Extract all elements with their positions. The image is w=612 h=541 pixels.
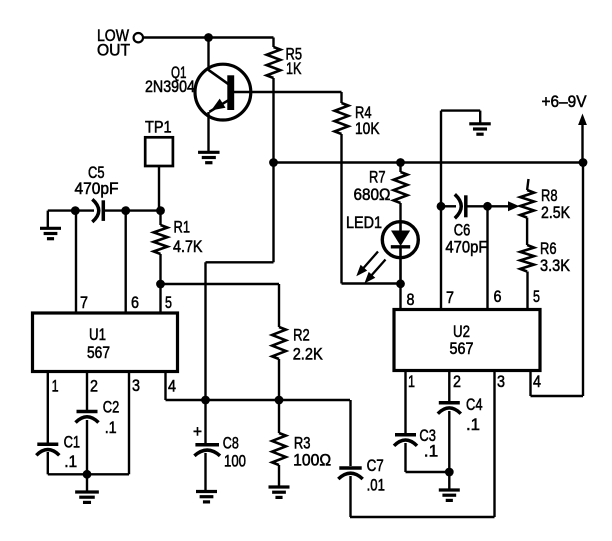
capacitor C5 <box>92 199 103 222</box>
ground <box>439 490 460 500</box>
svg-text:TP1: TP1 <box>145 118 172 137</box>
svg-text:7: 7 <box>446 288 454 307</box>
svg-text:R1: R1 <box>174 218 191 237</box>
node <box>156 206 165 215</box>
svg-text:C4: C4 <box>466 395 483 414</box>
pin 4 label <box>168 377 176 396</box>
wire <box>466 205 488 207</box>
node <box>437 202 446 211</box>
node <box>396 158 405 167</box>
svg-text:C1: C1 <box>64 432 81 451</box>
node <box>483 202 492 211</box>
svg-text:2N3904: 2N3904 <box>145 77 195 96</box>
svg-text:100Ω: 100Ω <box>293 451 331 470</box>
ground <box>198 152 220 162</box>
svg-text:C8: C8 <box>223 434 239 453</box>
wire <box>164 372 166 401</box>
wire <box>166 399 351 401</box>
node <box>201 396 210 405</box>
svg-text:4.7K: 4.7K <box>173 237 203 256</box>
ground <box>269 487 290 497</box>
wire <box>486 206 488 311</box>
wire <box>48 473 129 475</box>
node <box>71 206 80 215</box>
svg-text:3: 3 <box>497 372 505 391</box>
wire <box>159 254 161 313</box>
label R8 2.5K <box>541 186 571 222</box>
svg-text:8: 8 <box>407 290 415 309</box>
wire <box>128 372 130 475</box>
wire <box>399 284 401 311</box>
pin 1 label <box>408 372 415 391</box>
svg-text:3.3K: 3.3K <box>540 256 571 275</box>
wire <box>272 163 274 263</box>
pin 8 label <box>407 290 415 309</box>
label R5 1K <box>286 45 303 79</box>
svg-text:2.2K: 2.2K <box>293 344 324 363</box>
label Q1 2N3904 <box>145 63 195 96</box>
node collector-R5 junction <box>204 33 213 42</box>
resistor R4 <box>335 92 349 134</box>
svg-text:C2: C2 <box>103 398 120 417</box>
svg-text:2: 2 <box>453 372 461 391</box>
svg-text:R7: R7 <box>369 168 386 187</box>
label C4 .1 <box>466 395 483 434</box>
svg-text:3: 3 <box>132 376 140 395</box>
wire <box>75 211 77 313</box>
ground <box>40 228 61 238</box>
resistor R6 <box>520 218 534 272</box>
label R7 680 <box>354 168 391 205</box>
node <box>269 158 278 167</box>
wire <box>526 272 528 312</box>
svg-text:4: 4 <box>168 377 176 396</box>
pin 2 label <box>90 377 98 396</box>
svg-text:C7: C7 <box>367 456 384 475</box>
label C7 .01 <box>367 456 385 494</box>
IC U1 <box>33 313 178 372</box>
wire <box>159 166 161 211</box>
pin 6 label <box>131 293 139 312</box>
svg-text:5: 5 <box>533 287 540 306</box>
wire <box>124 211 126 313</box>
svg-text:.1: .1 <box>64 452 77 471</box>
pin 3 label <box>132 376 140 395</box>
wire <box>204 262 206 400</box>
svg-text:.01: .01 <box>367 475 385 494</box>
svg-text:680Ω: 680Ω <box>354 185 391 204</box>
svg-text:7: 7 <box>80 293 88 312</box>
resistor R1 <box>154 211 168 254</box>
label R4 10K <box>355 103 380 138</box>
svg-text:4: 4 <box>533 372 541 391</box>
IC U2 <box>394 310 540 371</box>
svg-text:2: 2 <box>90 377 98 396</box>
label C2 .1 <box>103 398 120 437</box>
ground <box>196 492 217 502</box>
svg-text:5: 5 <box>165 293 172 312</box>
pin 4 label <box>533 372 541 391</box>
capacitor C1 <box>36 372 59 475</box>
label C3 .1 <box>419 426 438 461</box>
svg-text:R2: R2 <box>293 326 310 345</box>
resistor R3 <box>272 400 286 487</box>
label LED1 <box>346 213 382 232</box>
wire <box>340 134 342 284</box>
capacitor C7 <box>338 400 362 517</box>
wire <box>350 516 495 518</box>
label LOW OUT <box>97 26 130 60</box>
wire <box>234 91 342 93</box>
label C8 100 <box>223 434 246 471</box>
LED LED1 <box>382 221 418 284</box>
wire <box>488 205 509 207</box>
node <box>445 468 454 477</box>
label C1 .1 <box>64 432 81 471</box>
pin 6 label <box>494 287 502 306</box>
wire <box>206 261 274 263</box>
resistor R2 <box>272 284 286 400</box>
wire <box>161 283 280 285</box>
wire <box>207 38 209 71</box>
svg-text:470pF: 470pF <box>75 179 119 198</box>
svg-text:R6: R6 <box>540 239 557 258</box>
svg-text:567: 567 <box>450 339 474 358</box>
pin 7 label <box>80 293 88 312</box>
pin 5 label <box>165 293 172 312</box>
node <box>121 206 130 215</box>
wire <box>143 36 273 38</box>
wire <box>47 211 49 229</box>
svg-text:LED1: LED1 <box>346 213 382 232</box>
wire <box>104 209 161 211</box>
wire <box>342 282 401 284</box>
wire <box>207 112 209 152</box>
wire <box>441 111 480 207</box>
capacitor C2 <box>76 372 99 475</box>
test point TP1 <box>145 137 173 166</box>
svg-text:+6–9V: +6–9V <box>542 92 588 111</box>
pin 7 label <box>446 288 454 307</box>
wire <box>440 206 442 311</box>
ground <box>75 492 99 502</box>
potentiometer R8 wiper arrow <box>508 201 520 211</box>
svg-text:10K: 10K <box>355 119 380 138</box>
resistor R5 <box>267 38 281 163</box>
svg-text:1K: 1K <box>286 59 302 78</box>
wire <box>493 371 495 518</box>
power +6-9V <box>542 92 588 163</box>
terminal LOW OUT <box>134 33 143 42</box>
node pin8 <box>396 279 405 288</box>
wire <box>86 474 88 492</box>
node <box>83 470 92 479</box>
label R3 100 <box>293 434 331 470</box>
svg-text:1: 1 <box>408 372 415 391</box>
svg-text:2.5K: 2.5K <box>541 203 571 222</box>
capacitor C6 <box>441 194 466 218</box>
svg-text:+: + <box>193 422 202 441</box>
LED light arrows <box>356 252 385 284</box>
power rail <box>274 161 584 163</box>
label C5 470pF <box>75 163 119 198</box>
svg-text:1: 1 <box>52 377 59 396</box>
pin 5 label <box>533 287 540 306</box>
svg-text:.1: .1 <box>466 415 480 434</box>
wire <box>448 472 450 490</box>
svg-text:470pF: 470pF <box>445 238 487 257</box>
node <box>156 280 165 289</box>
pin 1 label <box>52 377 59 396</box>
wire pin4 U2 to +V <box>531 163 584 397</box>
node <box>579 158 588 167</box>
transistor Q1 <box>195 64 251 120</box>
label C8 plus <box>193 422 202 441</box>
label R6 3.3K <box>540 239 571 275</box>
label TP1 <box>145 118 172 137</box>
label R1 4.7K <box>173 218 203 257</box>
svg-text:U2: U2 <box>453 322 470 341</box>
label R2 2.2K <box>293 326 324 364</box>
svg-text:.1: .1 <box>424 442 438 461</box>
svg-text:6: 6 <box>131 293 139 312</box>
node <box>275 396 284 405</box>
capacitor C4 <box>438 371 461 473</box>
capacitor C3 <box>394 371 449 473</box>
svg-text:6: 6 <box>494 287 502 306</box>
capacitor C8 <box>194 400 220 492</box>
label C6 470pF <box>445 221 487 257</box>
pin 2 label <box>453 372 461 391</box>
wire <box>48 209 94 211</box>
svg-text:OUT: OUT <box>97 41 130 60</box>
resistor R7 <box>394 163 408 224</box>
svg-text:567: 567 <box>87 343 110 362</box>
ground <box>469 124 491 134</box>
svg-text:100: 100 <box>224 451 246 470</box>
svg-text:U1: U1 <box>89 325 106 344</box>
svg-text:.1: .1 <box>105 418 117 437</box>
potentiometer R8 <box>520 179 534 218</box>
pin 3 label <box>497 372 505 391</box>
